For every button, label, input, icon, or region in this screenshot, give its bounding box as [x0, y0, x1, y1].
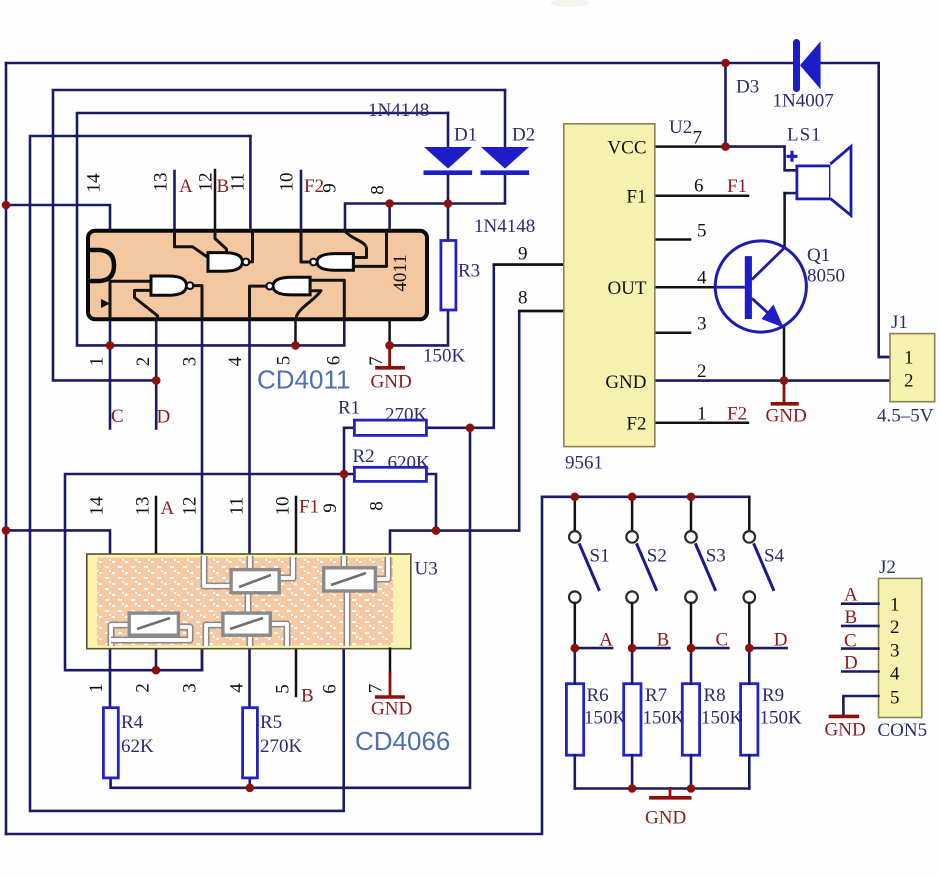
- switch S3 top contact: [685, 531, 697, 543]
- svg-text:12: 12: [196, 173, 217, 192]
- wire: node D down to resistor: [748, 648, 751, 684]
- junction dot: [152, 376, 161, 385]
- svg-text:8: 8: [368, 185, 389, 195]
- wire: 4011 pin10 stub (net F2): [300, 171, 303, 231]
- wire: U3 pin1 to R4: [109, 649, 112, 708]
- wire: 4011 pin13 stub (net A): [173, 171, 176, 231]
- wire: resistor to bottom bus: [573, 755, 576, 788]
- svg-text:F1: F1: [727, 176, 747, 197]
- svg-text:R9: R9: [762, 685, 784, 706]
- resistor R7 body: [624, 684, 641, 756]
- svg-text:D2: D2: [512, 125, 535, 146]
- svg-text:150K: 150K: [701, 708, 744, 729]
- svg-text:9: 9: [320, 503, 341, 513]
- wire: 9561 pin1 F2 stub: [655, 422, 748, 425]
- wire: U3 pin4 to R5: [248, 649, 251, 708]
- switch S2 blade: [636, 543, 656, 591]
- wire: node B down to resistor: [631, 648, 634, 684]
- svg-text:8: 8: [518, 288, 528, 309]
- svg-text:3: 3: [180, 683, 201, 693]
- svg-text:GND: GND: [645, 808, 686, 829]
- U3 trace switch A bottom to switch D top: [245, 593, 252, 613]
- wire: 4011 pin7 stub: [388, 319, 391, 345]
- svg-text:3: 3: [180, 357, 201, 367]
- svg-text:CD4011: CD4011: [257, 365, 350, 395]
- svg-text:U2: U2: [669, 117, 692, 138]
- wire: 4011 pin2 / D stub: [155, 319, 158, 428]
- gate U1C output bubble and wire to pin10: [310, 259, 317, 266]
- svg-text:150K: 150K: [643, 708, 686, 729]
- resistor R8 body: [682, 684, 699, 756]
- svg-text:R4: R4: [121, 712, 144, 733]
- svg-text:4011: 4011: [390, 254, 411, 291]
- wire: VCC to speaker plus terminal: [726, 147, 797, 171]
- svg-text:4: 4: [225, 356, 246, 366]
- wire: D1 anode net (top line 3 down to pins1/5 wire): [77, 113, 448, 345]
- wire: 9561 pin8 entry: [519, 310, 564, 313]
- svg-text:CD4066: CD4066: [355, 726, 450, 756]
- wire: 9561 pin9 entry: [494, 263, 564, 266]
- Q1 emitter arrowhead: [762, 305, 784, 328]
- wire: R3 bottom to 4011 pin7 GND dot: [390, 310, 448, 345]
- svg-text:R3: R3: [458, 261, 480, 282]
- junction dot: [687, 644, 696, 653]
- svg-text:4: 4: [227, 683, 248, 693]
- svg-text:8050: 8050: [807, 266, 845, 287]
- wire: resistor to bottom bus: [690, 755, 693, 788]
- junction dot: [340, 470, 349, 479]
- svg-text:150K: 150K: [584, 708, 627, 729]
- svg-text:F2: F2: [727, 404, 747, 425]
- svg-text:150K: 150K: [760, 708, 803, 729]
- svg-text:S2: S2: [647, 546, 667, 567]
- svg-text:B: B: [657, 630, 670, 651]
- svg-text:10: 10: [273, 497, 294, 516]
- svg-text:J2: J2: [879, 557, 896, 578]
- resistor R1 body: [354, 420, 426, 435]
- U3 switch B: [324, 568, 376, 591]
- wire: collector vertical: [783, 193, 786, 247]
- IC U2 9561 body: [564, 124, 655, 447]
- svg-text:13: 13: [151, 173, 172, 192]
- IC U3 CD4066 body: [87, 554, 411, 649]
- junction dot: [2, 526, 11, 535]
- svg-text:GND: GND: [371, 372, 412, 393]
- switch S4 bottom contact: [744, 591, 756, 603]
- J2 pin1 lead: [842, 602, 878, 605]
- svg-text:3: 3: [697, 314, 707, 335]
- wire: 4011 pins 9/8 to D1 D2 cathodes: [345, 175, 505, 231]
- svg-text:Q1: Q1: [807, 245, 830, 266]
- svg-text:10: 10: [277, 173, 298, 192]
- wire: U3 pin8 to 9561 pin8: [390, 311, 564, 554]
- svg-text:1: 1: [697, 404, 707, 425]
- switch S3 bottom contact: [685, 591, 697, 603]
- svg-text:A: A: [179, 176, 193, 197]
- svg-text:D3: D3: [736, 77, 759, 98]
- svg-text:7: 7: [693, 128, 703, 149]
- svg-text:2: 2: [133, 683, 154, 693]
- gate U1C input wires (pins 9,8): [345, 231, 387, 267]
- switch S1 top contact: [569, 531, 581, 543]
- U3 trace pin11 to switch A top: [247, 556, 254, 570]
- svg-text:4.5–5V: 4.5–5V: [877, 406, 934, 427]
- U3 trace switch D to pin3: [206, 625, 223, 646]
- wire: U3 pin13 stub (net A): [155, 497, 158, 611]
- svg-text:R1: R1: [338, 398, 360, 419]
- junction dot: [246, 784, 255, 793]
- wire: 9561 pin4 OUT to Q1 base: [655, 286, 716, 289]
- switch S4 blade: [754, 543, 774, 591]
- svg-text:1: 1: [904, 348, 914, 369]
- switch S1 bottom contact: [569, 591, 581, 603]
- svg-text:11: 11: [227, 497, 248, 515]
- switch S4 top contact: [744, 531, 756, 543]
- wire: 4011 pin1 / C stub: [109, 319, 112, 428]
- svg-text:14: 14: [87, 496, 108, 516]
- svg-text:D1: D1: [454, 125, 477, 146]
- CD4011 pin1 marker: [101, 299, 110, 308]
- wire: branch down to R4/R5 bottom rail: [111, 428, 470, 788]
- svg-text:S1: S1: [590, 546, 610, 567]
- junction dot: [628, 644, 637, 653]
- wire: drop from D3 rail to VCC pin: [724, 63, 727, 147]
- wire: R5 bottom stub: [249, 778, 252, 788]
- svg-text:GND: GND: [605, 372, 646, 393]
- wire: 4011 pin4 to U3 pin11: [248, 319, 251, 554]
- speaker plus sign: [787, 151, 798, 162]
- junction dot: [466, 424, 475, 433]
- svg-text:9561: 9561: [565, 453, 603, 474]
- node D line: [749, 647, 786, 650]
- diode D1 1N4148: [424, 147, 472, 169]
- resistor R9 body: [741, 684, 758, 756]
- svg-text:11: 11: [228, 173, 249, 191]
- svg-text:B: B: [845, 607, 858, 628]
- switch S3 top stub: [690, 497, 693, 531]
- svg-text:1N4148: 1N4148: [368, 100, 429, 121]
- CD4011 notch: [90, 250, 114, 281]
- U3 trace switch C to pin1: [111, 625, 129, 646]
- svg-text:F1: F1: [626, 187, 646, 208]
- switch S1 blade: [579, 543, 599, 591]
- switch S2 bottom contact: [626, 591, 638, 603]
- transistor Q1 circle: [715, 241, 806, 332]
- U3 trace switch B down to pin6: [344, 591, 351, 646]
- svg-text:5: 5: [273, 684, 294, 694]
- gate U1A body: [151, 276, 187, 295]
- svg-text:13: 13: [133, 497, 154, 516]
- junction dot: [628, 784, 637, 793]
- Q1 base bar: [745, 256, 752, 319]
- svg-text:F1: F1: [299, 497, 319, 518]
- svg-text:D: D: [774, 630, 788, 651]
- svg-text:S3: S3: [706, 546, 726, 567]
- svg-text:1: 1: [86, 683, 107, 693]
- switch S3 bottom stub: [690, 603, 693, 648]
- junction dot: [291, 341, 300, 350]
- Q1 base lead: [716, 286, 745, 289]
- decorative smudge: [550, 0, 590, 7]
- junction dot: [432, 526, 441, 535]
- wire: D1 anode stub: [447, 113, 450, 147]
- svg-text:150K: 150K: [423, 346, 466, 367]
- svg-text:270K: 270K: [260, 736, 303, 757]
- svg-text:7: 7: [366, 684, 387, 694]
- Q1 emitter lead: [752, 298, 784, 327]
- U3 switch A: [231, 570, 279, 593]
- wire: 4011 pin5 stub: [294, 319, 297, 345]
- svg-text:A: A: [599, 630, 613, 651]
- gate U1C body (mirrored): [317, 254, 353, 271]
- svg-text:VCC: VCC: [607, 138, 646, 159]
- ground at U3 pin7: [389, 673, 392, 696]
- svg-text:B: B: [301, 686, 314, 707]
- switch S4 bottom stub: [748, 603, 751, 648]
- gate U1A output bubble and wire to pin3: [187, 282, 194, 289]
- svg-text:6: 6: [320, 684, 341, 694]
- svg-text:5: 5: [890, 688, 900, 709]
- svg-text:14: 14: [84, 173, 105, 193]
- svg-text:CON5: CON5: [878, 720, 928, 741]
- connector J1 body: [890, 334, 935, 402]
- connector J2 body: [879, 578, 922, 717]
- junction dot: [385, 341, 394, 350]
- U3 trace under switch C: [111, 627, 190, 640]
- svg-text:R7: R7: [645, 685, 667, 706]
- svg-text:B: B: [217, 176, 230, 197]
- Q1 collector lead: [752, 247, 785, 280]
- junction dot: [745, 644, 754, 653]
- svg-text:U3: U3: [415, 559, 438, 580]
- wire: 4011 pin11 vertical: [249, 136, 252, 231]
- junction dot: [385, 199, 394, 208]
- switch S2 bottom stub: [631, 603, 634, 648]
- wire: R3 top to pins9/8 wire: [447, 204, 450, 241]
- gate U1D input wires (pins 6,5): [297, 280, 345, 319]
- wire: R1 left / 4011 pin6 column to U3 pin9: [344, 428, 354, 554]
- svg-text:GND: GND: [371, 699, 412, 720]
- U3 trace switch B to pin8 col: [375, 557, 388, 579]
- svg-text:620K: 620K: [388, 453, 431, 474]
- junction dot: [628, 493, 637, 502]
- svg-text:A: A: [161, 498, 175, 519]
- wire: speaker bottom terminal to Q1 collector: [785, 192, 797, 195]
- svg-text:4: 4: [697, 268, 707, 289]
- svg-text:1N4007: 1N4007: [773, 91, 834, 112]
- svg-text:2: 2: [697, 361, 707, 382]
- svg-text:R5: R5: [260, 712, 282, 733]
- svg-text:C: C: [111, 406, 124, 427]
- svg-text:R6: R6: [587, 685, 609, 706]
- wire: top VCC/D3 rail: [6, 62, 794, 65]
- wire: 4011 pin11 net (top line 4, left rail x30 down to U3 pin6 bottom): [30, 136, 344, 811]
- svg-text:R8: R8: [704, 685, 726, 706]
- J2 ground bar: [831, 715, 858, 719]
- junction dot: [687, 493, 696, 502]
- resistor R3 body: [441, 241, 456, 311]
- node B line: [632, 647, 669, 650]
- svg-text:OUT: OUT: [607, 278, 646, 299]
- svg-text:F2: F2: [304, 176, 324, 197]
- wire: U3 pin10 stub (net F1): [295, 497, 298, 554]
- gate U1D body (mirrored): [273, 277, 310, 295]
- switch S2 top contact: [626, 531, 638, 543]
- junction dot: [687, 784, 696, 793]
- switch S1 top stub: [574, 497, 577, 531]
- junction dot: [571, 644, 580, 653]
- speaker LS1 box: [797, 166, 831, 199]
- ground at R6-R9 bus: [669, 789, 672, 797]
- junction dot: [721, 59, 730, 68]
- wire: U3 pin7 stub: [389, 649, 392, 674]
- junction dot: [2, 201, 11, 210]
- switch S2 top stub: [631, 497, 634, 531]
- resistor R4 body: [103, 708, 118, 778]
- junction dot: [721, 142, 730, 151]
- resistor R2 body: [354, 467, 426, 481]
- svg-text:2: 2: [890, 617, 900, 638]
- junction dot: [152, 666, 161, 675]
- svg-text:270K: 270K: [385, 405, 428, 426]
- gate U1B output bubble and wire to pin11: [243, 259, 250, 266]
- wire: D2 anode stub: [504, 90, 507, 147]
- junction dot: [780, 376, 789, 385]
- U3 switch D: [223, 613, 270, 635]
- wire: 4011 pin12 stub (net B): [214, 170, 217, 231]
- svg-text:5: 5: [697, 221, 707, 242]
- wire: node A down to resistor: [573, 648, 576, 684]
- diode D2 1N4148: [481, 147, 529, 169]
- J2 pin4 lead: [842, 670, 878, 673]
- wire: D1 cathode drop: [447, 175, 450, 204]
- svg-text:C: C: [844, 630, 857, 651]
- wire: D2 anode net (top line 2 down left side to 4011 pin2): [53, 90, 505, 380]
- wire: 9561 GND pin2 to J1 pin2: [655, 379, 890, 382]
- gate U1B input wires (pins 12,13): [175, 231, 227, 258]
- svg-text:1N4148: 1N4148: [474, 216, 535, 237]
- IC U1 CD4011 body: [88, 231, 427, 319]
- wire: resistor to bottom bus: [748, 755, 751, 788]
- wire: left rail from top to bottom bus: [5, 63, 8, 834]
- speaker LS1 horn: [830, 146, 851, 215]
- node C line: [691, 647, 728, 650]
- svg-text:C: C: [716, 630, 729, 651]
- svg-text:2: 2: [904, 371, 914, 392]
- svg-text:3: 3: [890, 641, 900, 662]
- wire: R2 left net from x65 rail: [65, 474, 354, 670]
- switch S4 top stub: [748, 497, 751, 531]
- ground at 4011 pin7: [388, 345, 391, 366]
- wire: R2 right elbow: [426, 474, 436, 531]
- resistor R5 body: [243, 708, 258, 778]
- svg-text:62K: 62K: [121, 736, 154, 757]
- wire: 4011 pin14 connection: [6, 205, 110, 231]
- wire: resistor to bottom bus: [631, 755, 634, 788]
- svg-text:D: D: [844, 653, 858, 674]
- resistor R6 body: [566, 684, 583, 756]
- svg-text:R2: R2: [353, 446, 375, 467]
- U3 trace switch D right to pin5: [270, 624, 287, 646]
- wire: VCC pin7 line: [655, 145, 726, 148]
- wire: R1 right to 9561 pin9: [426, 265, 563, 428]
- J2 pin5 lead to ground: [843, 696, 878, 715]
- svg-text:LS1: LS1: [787, 125, 822, 146]
- wire: 4011 pin8 stub: [388, 204, 391, 231]
- wire: D3 cathode side to right rail: [821, 63, 890, 357]
- node A line: [575, 647, 612, 650]
- wire: U3 pin2 stub to pins2/3 link: [155, 649, 158, 671]
- diode D3 1N4007: [793, 43, 800, 89]
- wire: switch bus and left drop to bottom rail: [6, 497, 749, 834]
- svg-text:A: A: [844, 585, 858, 606]
- svg-text:F2: F2: [626, 414, 646, 435]
- U3 trace pin12 to switch A: [204, 556, 231, 586]
- wire: U3 pin14 connection: [6, 530, 110, 554]
- ground at Q1 emitter / battery minus: [783, 381, 786, 403]
- svg-text:1: 1: [87, 357, 108, 367]
- gate U1B body: [208, 253, 242, 272]
- junction dot: [106, 341, 115, 350]
- U3 switch C: [129, 613, 178, 635]
- wire: U3 pin3 stub: [201, 649, 204, 671]
- svg-text:J1: J1: [891, 312, 908, 333]
- J2 pin3 lead: [842, 647, 878, 650]
- J2 pin2 lead: [842, 625, 878, 628]
- svg-text:S4: S4: [764, 546, 785, 567]
- gate U1A input wires (pins 1,2): [110, 281, 158, 319]
- wire: 9561 pin3 stub: [655, 331, 690, 334]
- svg-text:4: 4: [890, 664, 900, 685]
- junction dot: [444, 199, 453, 208]
- U3 trace pin9 to switch B: [341, 556, 348, 568]
- svg-text:GND: GND: [825, 720, 866, 741]
- wire: node C down to resistor: [690, 648, 693, 684]
- wire: 9561 pin6 F1 stub: [655, 195, 748, 198]
- wire: R6-R9 bottom bus: [575, 787, 750, 790]
- wire: U3 pin5 stub (net B): [295, 649, 298, 696]
- svg-text:D: D: [157, 407, 171, 428]
- svg-text:8: 8: [367, 501, 388, 511]
- svg-text:7: 7: [366, 356, 387, 366]
- U3 trace switch D bottom to pin4: [247, 635, 254, 646]
- wire: 9561 pin5 stub: [655, 238, 690, 241]
- junction dot: [571, 493, 580, 502]
- gate U1D output bubble and wire to pin4: [266, 283, 273, 290]
- svg-text:9: 9: [518, 244, 528, 265]
- svg-text:2: 2: [133, 357, 154, 367]
- U3 trace switch A to pin10 col: [279, 557, 293, 578]
- wire: J1 pin1 stub: [879, 356, 890, 359]
- svg-text:GND: GND: [766, 406, 807, 427]
- svg-text:12: 12: [180, 497, 201, 516]
- wire: emitter vertical to GND rail: [783, 327, 786, 380]
- switch S3 blade: [695, 543, 715, 591]
- switch S1 bottom stub: [574, 603, 577, 648]
- wire: 4011 pin3 to U3 pin12: [201, 319, 204, 554]
- svg-text:1: 1: [890, 595, 900, 616]
- svg-text:6: 6: [694, 176, 704, 197]
